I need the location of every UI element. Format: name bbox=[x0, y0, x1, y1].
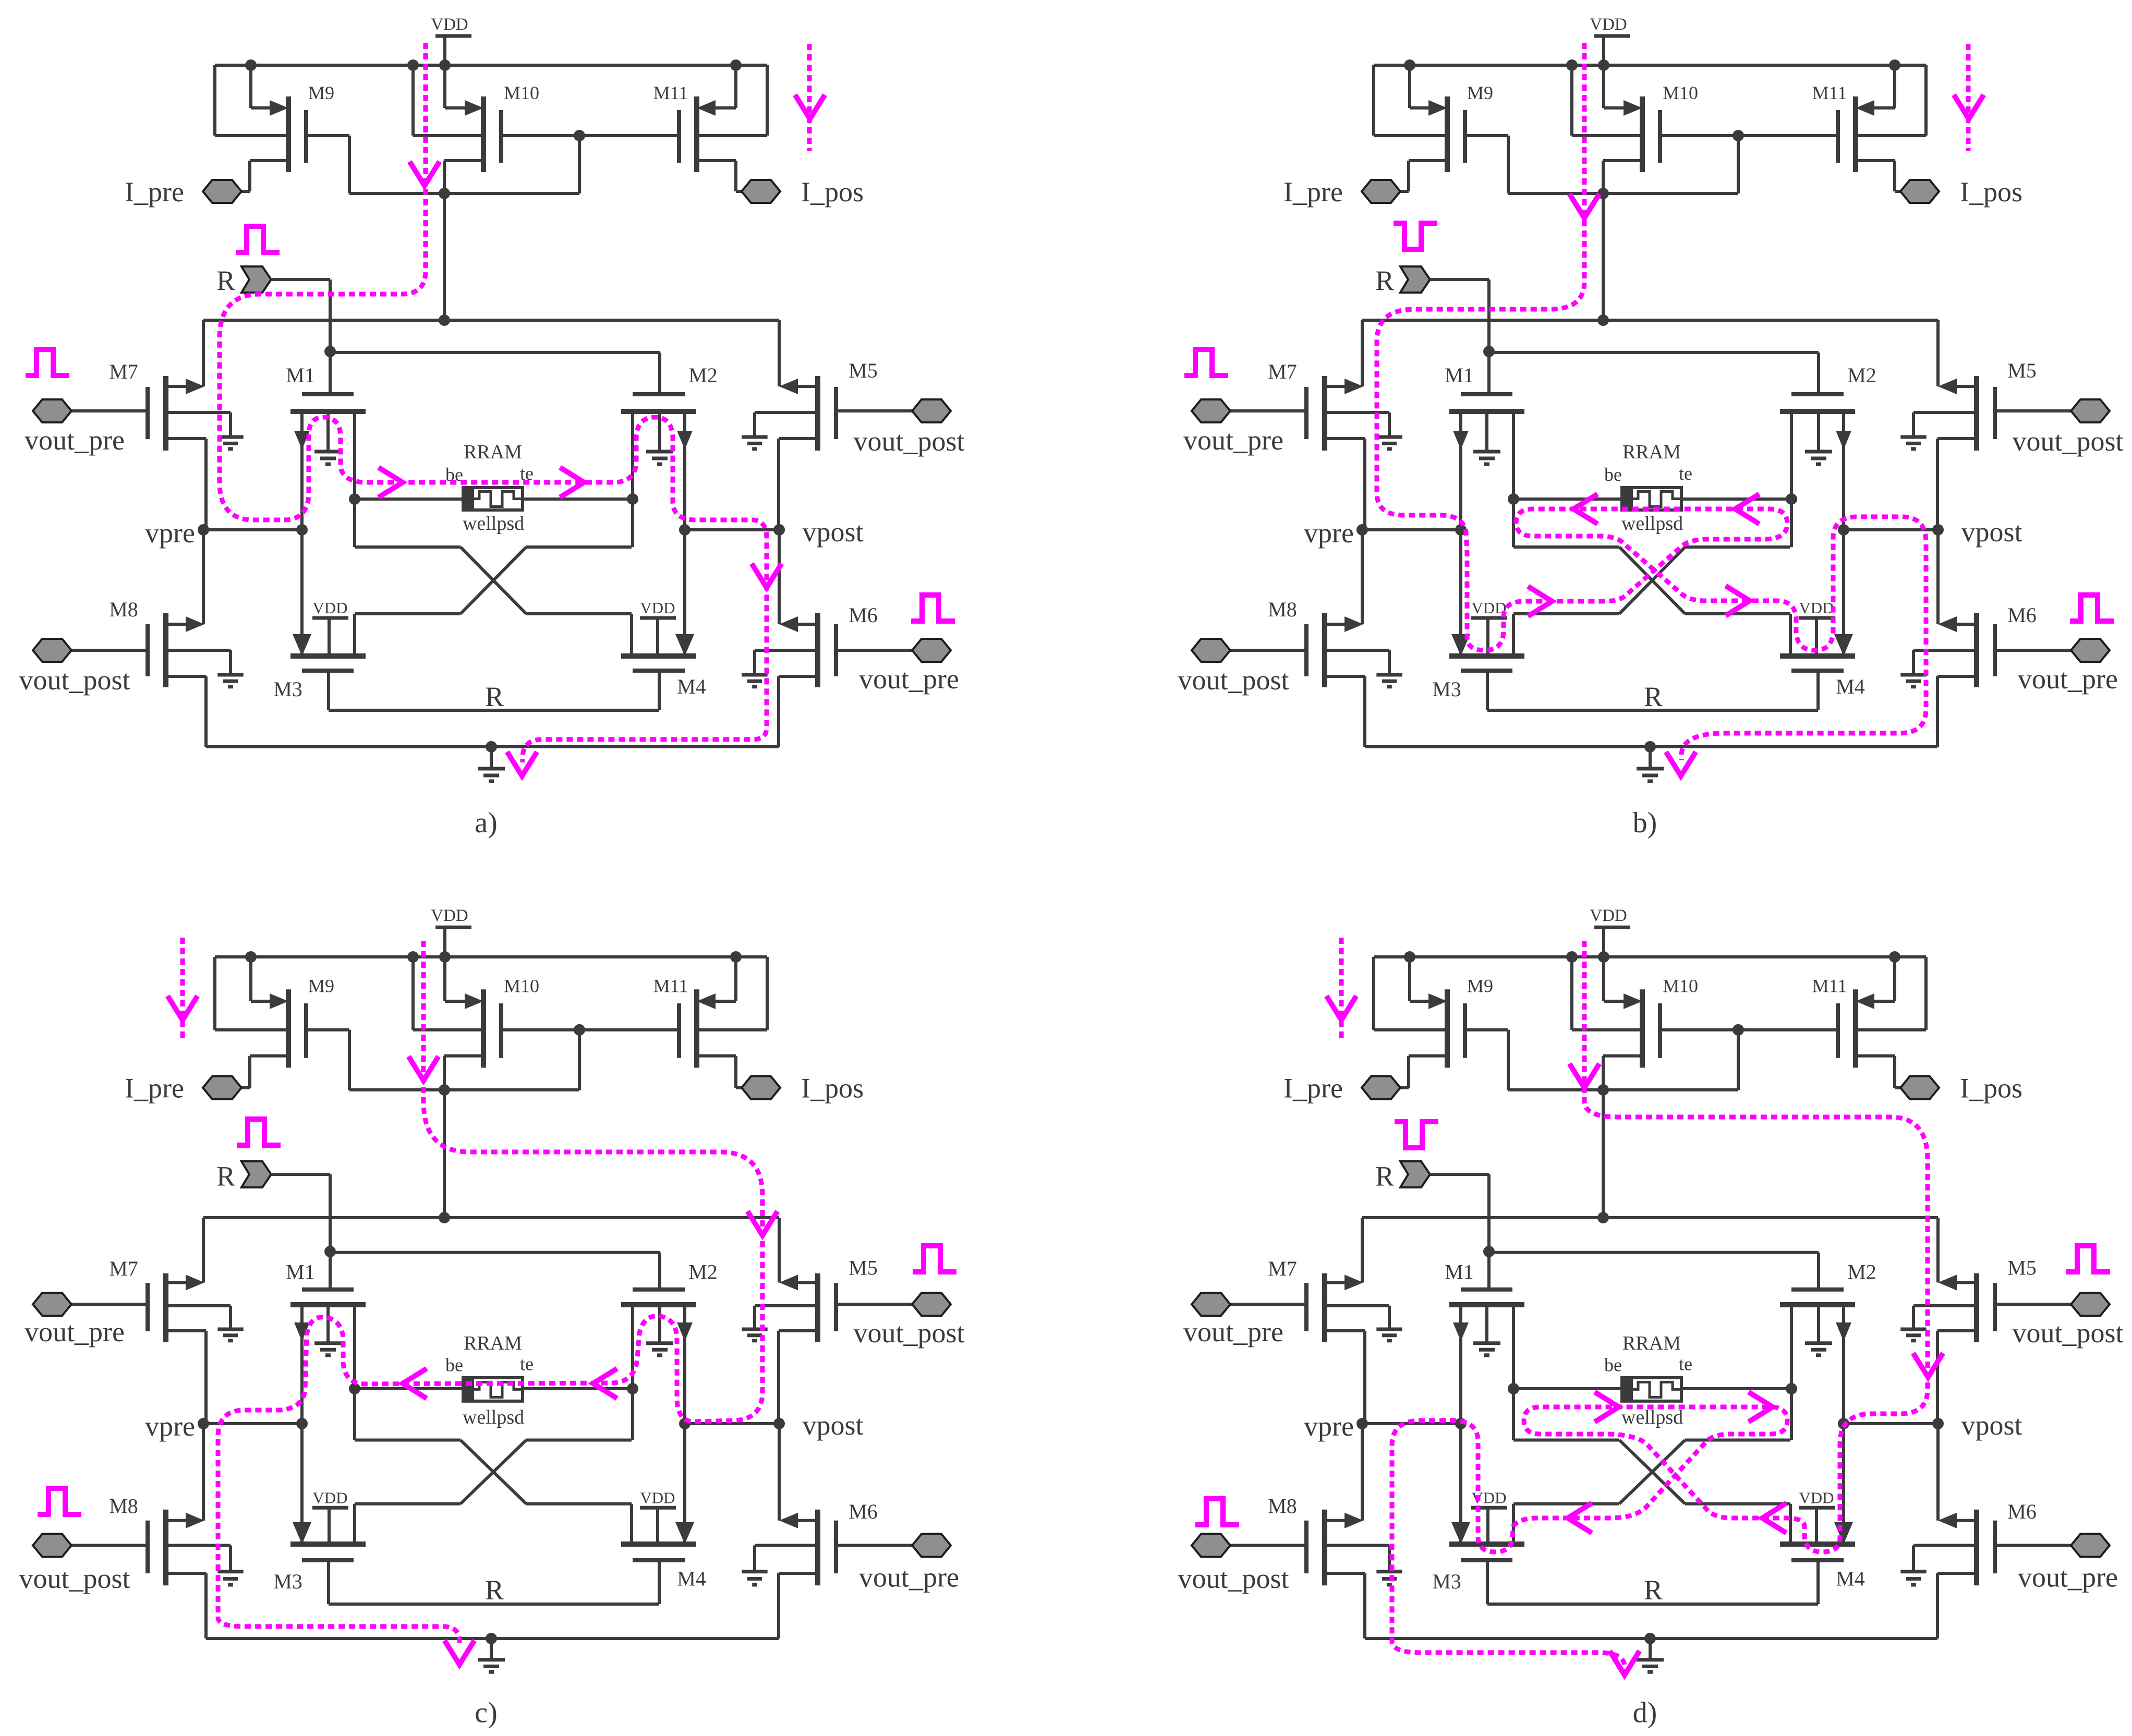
cross-coupling wires bbox=[1512, 1389, 1515, 1440]
svg-text:te: te bbox=[520, 1354, 534, 1375]
transistor M8 bbox=[146, 1521, 150, 1573]
cross-coupling wires bbox=[353, 1389, 356, 1440]
svg-text:M9: M9 bbox=[1467, 82, 1493, 103]
svg-text:vout_pre: vout_pre bbox=[2018, 663, 2118, 695]
transistor M2 bbox=[633, 1288, 685, 1292]
svg-text:M3: M3 bbox=[273, 677, 302, 701]
svg-text:R: R bbox=[216, 265, 235, 296]
current path (magenta) panel a bbox=[220, 43, 767, 762]
svg-text:vout_post: vout_post bbox=[2012, 1317, 2123, 1349]
svg-text:c): c) bbox=[475, 1696, 498, 1729]
svg-text:M2: M2 bbox=[688, 1260, 718, 1283]
transistor M7 bbox=[1304, 1283, 1309, 1331]
junction dots on VDD rail bbox=[245, 951, 257, 963]
svg-text:M5: M5 bbox=[849, 1256, 878, 1279]
pulse symbol at M5 bbox=[2066, 1246, 2110, 1272]
wire mirror output node bbox=[349, 1088, 579, 1091]
svg-text:M6: M6 bbox=[2007, 1500, 2037, 1523]
transistor M2 bbox=[1791, 392, 1844, 396]
svg-text:I_pre: I_pre bbox=[125, 1073, 184, 1104]
svg-text:M4: M4 bbox=[1836, 1567, 1865, 1591]
svg-text:M2: M2 bbox=[1847, 1260, 1876, 1283]
svg-text:M3: M3 bbox=[1432, 677, 1461, 701]
transistor M1 bbox=[302, 1288, 354, 1292]
pad vout_pre (M7 gate) bbox=[1192, 399, 1230, 422]
svg-text:M11: M11 bbox=[653, 975, 688, 996]
svg-text:M8: M8 bbox=[1268, 598, 1297, 621]
svg-text:M5: M5 bbox=[2007, 1256, 2037, 1279]
pulse symbol at M6 bbox=[2070, 595, 2114, 621]
svg-text:vpost: vpost bbox=[1961, 516, 2022, 548]
svg-text:VDD: VDD bbox=[640, 599, 675, 617]
ground at M5 bulk bbox=[742, 1328, 767, 1331]
svg-text:RRAM: RRAM bbox=[464, 441, 522, 463]
svg-text:I_pos: I_pos bbox=[1960, 1073, 2022, 1104]
svg-text:M2: M2 bbox=[688, 363, 718, 387]
node vpre bbox=[1362, 528, 1461, 531]
svg-text:R: R bbox=[1375, 265, 1394, 296]
wire gate net M10/M11 bbox=[1660, 1028, 1838, 1031]
node vpost bbox=[1844, 528, 1938, 531]
dashed current arrow I_pre side bbox=[1339, 938, 1344, 1040]
pad vout_pre (M6 gate) bbox=[912, 1534, 951, 1557]
pad vout_pre (M7 gate) bbox=[33, 1293, 71, 1316]
transistor M11 (PMOS, mirrored) bbox=[1853, 96, 1858, 172]
svg-text:vout_pre: vout_pre bbox=[1183, 424, 1283, 456]
svg-text:M11: M11 bbox=[653, 82, 688, 103]
ground at M2 bulk bbox=[1805, 1341, 1832, 1345]
transistor M8 bbox=[146, 624, 150, 676]
svg-text:R: R bbox=[216, 1160, 235, 1192]
wire ground rail bbox=[1365, 1637, 1937, 1640]
svg-text:R: R bbox=[1644, 681, 1663, 712]
svg-text:vout_pre: vout_pre bbox=[1183, 1316, 1283, 1347]
transistor M9 (PMOS, current mirror) bbox=[1445, 989, 1450, 1067]
junction dots on VDD rail bbox=[1404, 59, 1415, 71]
wire ground rail bbox=[206, 745, 779, 748]
ground at M7 bulk bbox=[217, 435, 243, 439]
svg-text:R: R bbox=[485, 1574, 504, 1606]
RRAM memristor device bbox=[1513, 1387, 1622, 1390]
ground at M8 bulk bbox=[217, 673, 243, 677]
pulse symbol at R (negative) bbox=[1395, 1122, 1438, 1148]
transistor M4 bbox=[621, 1541, 696, 1547]
svg-text:VDD: VDD bbox=[431, 906, 468, 925]
ground at M8 bulk bbox=[1376, 1570, 1402, 1573]
node vpost bbox=[685, 528, 779, 531]
svg-text:wellpsd: wellpsd bbox=[463, 513, 524, 535]
ground at M5 bulk bbox=[1900, 435, 1926, 439]
wire R gate bus M3-M4 bbox=[329, 1603, 659, 1606]
svg-text:M5: M5 bbox=[2007, 359, 2037, 382]
ground at M6 bulk bbox=[1900, 1570, 1926, 1573]
transistor M10 (PMOS, current mirror) bbox=[1640, 989, 1645, 1067]
svg-text:I_pos: I_pos bbox=[801, 1073, 864, 1104]
svg-text:vout_pre: vout_pre bbox=[859, 663, 959, 695]
ground at M2 bulk bbox=[646, 450, 673, 454]
wire upper horizontal rail bbox=[203, 1216, 779, 1219]
svg-text:I_pos: I_pos bbox=[1960, 176, 2022, 208]
wire VDD rail bbox=[1374, 64, 1926, 67]
pad R input bbox=[241, 266, 271, 293]
wire gate net M10/M11 bbox=[1660, 134, 1838, 137]
wire VDD rail bbox=[215, 955, 767, 958]
transistor M11 (PMOS, mirrored) bbox=[1853, 989, 1858, 1067]
cross-coupling wires bbox=[353, 499, 356, 547]
svg-text:R: R bbox=[1644, 1574, 1663, 1606]
transistor M5 bbox=[1993, 1283, 1997, 1331]
svg-text:vout_pre: vout_pre bbox=[25, 424, 125, 456]
svg-text:M1: M1 bbox=[286, 1260, 315, 1283]
svg-text:vout_post: vout_post bbox=[2012, 426, 2123, 457]
pulse symbol at M7 bbox=[1184, 349, 1228, 375]
svg-text:VDD: VDD bbox=[312, 1489, 347, 1507]
node R gate bus bbox=[1483, 1246, 1495, 1257]
svg-text:vout_post: vout_post bbox=[19, 664, 130, 696]
ground at M2 bulk bbox=[1805, 450, 1832, 454]
svg-text:vpre: vpre bbox=[1304, 1411, 1354, 1442]
pad R input bbox=[1400, 266, 1430, 293]
svg-text:M5: M5 bbox=[849, 359, 878, 382]
svg-text:M9: M9 bbox=[308, 82, 334, 103]
svg-text:wellpsd: wellpsd bbox=[1621, 1406, 1683, 1428]
svg-text:M1: M1 bbox=[1445, 363, 1474, 387]
transistor M4 bbox=[1780, 653, 1855, 659]
svg-text:M10: M10 bbox=[1663, 975, 1698, 996]
pad vout_pre (M6 gate) bbox=[2071, 639, 2110, 662]
node vpre bbox=[203, 1422, 302, 1425]
wire mirror output node bbox=[1508, 192, 1738, 195]
wire upper horizontal rail bbox=[1362, 1216, 1938, 1219]
svg-text:M7: M7 bbox=[109, 1257, 138, 1280]
transistor M6 bbox=[1993, 1521, 1997, 1573]
ground at M5 bulk bbox=[1900, 1328, 1926, 1331]
pad vout_pre (M7 gate) bbox=[1192, 1293, 1230, 1316]
pulse symbol at M5 bbox=[913, 1246, 956, 1272]
ground symbol main bbox=[1649, 1638, 1652, 1660]
pad vout_post (M8 gate) bbox=[1192, 1534, 1230, 1557]
pad vout_post (M8 gate) bbox=[33, 639, 71, 662]
node R gate bus bbox=[324, 1246, 336, 1257]
svg-text:te: te bbox=[1679, 463, 1692, 484]
node R gate bus bbox=[324, 346, 336, 357]
svg-text:VDD: VDD bbox=[312, 599, 347, 617]
pulse symbol at M8 bbox=[38, 1488, 81, 1514]
transistor M1 bbox=[1461, 392, 1512, 396]
pad I_pre bbox=[203, 1076, 241, 1099]
current path (magenta) panel b bbox=[1377, 43, 1926, 760]
transistor M3 bbox=[290, 1541, 366, 1547]
svg-text:vout_post: vout_post bbox=[1178, 1563, 1289, 1594]
transistor M8 bbox=[1304, 1521, 1309, 1573]
transistor M10 (PMOS, current mirror) bbox=[481, 96, 486, 172]
wire upper horizontal rail bbox=[1362, 319, 1938, 322]
svg-text:M10: M10 bbox=[1663, 82, 1698, 103]
pad I_pre bbox=[1362, 1076, 1400, 1099]
node vpost bbox=[685, 1422, 779, 1425]
svg-text:wellpsd: wellpsd bbox=[1621, 513, 1683, 535]
ground at M7 bulk bbox=[217, 1328, 243, 1331]
svg-text:RRAM: RRAM bbox=[464, 1332, 522, 1354]
svg-text:vout_post: vout_post bbox=[19, 1563, 130, 1594]
svg-text:M1: M1 bbox=[286, 363, 315, 387]
svg-text:VDD: VDD bbox=[1590, 906, 1627, 925]
transistor M9 (PMOS, current mirror) bbox=[1445, 96, 1450, 172]
ground symbol main bbox=[490, 747, 493, 769]
pad I_pre bbox=[1362, 180, 1400, 203]
pad vout_post (M5 gate) bbox=[2071, 1293, 2110, 1316]
svg-text:be: be bbox=[1604, 464, 1622, 485]
RRAM memristor device bbox=[355, 497, 463, 501]
wire ground rail bbox=[1365, 745, 1937, 748]
transistor M6 bbox=[834, 624, 838, 676]
RRAM memristor device bbox=[1513, 497, 1622, 501]
svg-text:VDD: VDD bbox=[431, 15, 468, 34]
svg-text:R: R bbox=[1375, 1160, 1394, 1192]
pad vout_pre (M6 gate) bbox=[2071, 1534, 2110, 1557]
ground at M1 bulk bbox=[314, 450, 342, 454]
RRAM memristor device bbox=[355, 1387, 463, 1390]
pulse symbol at R bbox=[237, 1119, 281, 1145]
ground at M1 bulk bbox=[1473, 1341, 1500, 1345]
pad I_pos bbox=[742, 180, 780, 203]
svg-text:a): a) bbox=[475, 807, 498, 839]
current path (magenta) panel c bbox=[218, 941, 762, 1646]
svg-text:I_pre: I_pre bbox=[125, 176, 184, 208]
pulse symbol at M7 bbox=[26, 349, 69, 375]
pad I_pos bbox=[742, 1076, 780, 1099]
pulse symbol at M8 bbox=[1195, 1499, 1239, 1525]
svg-text:M11: M11 bbox=[1812, 82, 1847, 103]
pad vout_post (M5 gate) bbox=[912, 399, 951, 422]
transistor M2 bbox=[1791, 1288, 1844, 1292]
svg-text:be: be bbox=[1604, 1355, 1622, 1376]
ground at M6 bulk bbox=[742, 1570, 767, 1573]
svg-text:M7: M7 bbox=[1268, 1257, 1297, 1280]
ground symbol main bbox=[1649, 747, 1652, 769]
pad vout_post (M5 gate) bbox=[2071, 399, 2110, 422]
svg-text:VDD: VDD bbox=[640, 1489, 675, 1507]
svg-text:VDD: VDD bbox=[1799, 1489, 1834, 1507]
transistor M5 bbox=[834, 1283, 838, 1331]
transistor M7 bbox=[146, 1283, 150, 1331]
transistor M5 bbox=[834, 387, 838, 439]
transistor M4 bbox=[621, 653, 696, 659]
wire gate net M10/M11 bbox=[501, 1028, 679, 1031]
svg-text:vout_pre: vout_pre bbox=[859, 1562, 959, 1593]
pad vout_post (M8 gate) bbox=[33, 1534, 71, 1557]
svg-text:M10: M10 bbox=[504, 975, 539, 996]
pad I_pos bbox=[1900, 1076, 1939, 1099]
pad R input bbox=[1400, 1161, 1430, 1187]
svg-text:M8: M8 bbox=[1268, 1495, 1297, 1518]
pad vout_post (M8 gate) bbox=[1192, 639, 1230, 662]
transistor M3 bbox=[290, 653, 366, 659]
pad R input bbox=[241, 1161, 271, 1187]
svg-text:vpre: vpre bbox=[1304, 517, 1354, 549]
transistor M6 bbox=[1993, 624, 1997, 676]
wire upper horizontal rail bbox=[203, 319, 779, 322]
svg-text:VDD: VDD bbox=[1799, 599, 1834, 617]
transistor M2 bbox=[633, 392, 685, 396]
ground symbol main bbox=[490, 1638, 493, 1660]
transistor M3 bbox=[1449, 653, 1524, 659]
svg-text:te: te bbox=[1679, 1354, 1692, 1375]
svg-text:M11: M11 bbox=[1812, 975, 1847, 996]
svg-text:vout_post: vout_post bbox=[1178, 664, 1289, 696]
svg-text:M9: M9 bbox=[1467, 975, 1493, 996]
pulse symbol at R bbox=[236, 226, 280, 252]
transistor M5 bbox=[1993, 387, 1997, 439]
svg-text:M7: M7 bbox=[109, 360, 138, 383]
pad vout_post (M5 gate) bbox=[912, 1293, 951, 1316]
ground at M1 bulk bbox=[314, 1341, 342, 1345]
pad I_pre bbox=[203, 180, 241, 203]
pulse symbol at M6 bbox=[911, 595, 955, 621]
ground at M6 bulk bbox=[742, 673, 767, 677]
wire VDD rail bbox=[215, 64, 767, 67]
wire ground rail bbox=[206, 1637, 779, 1640]
ground at M7 bulk bbox=[1376, 1328, 1402, 1331]
svg-text:wellpsd: wellpsd bbox=[463, 1406, 524, 1428]
svg-text:vout_pre: vout_pre bbox=[25, 1316, 125, 1347]
transistor M7 bbox=[1304, 387, 1309, 439]
svg-text:M3: M3 bbox=[273, 1570, 302, 1593]
junction dots on VDD rail bbox=[245, 59, 257, 71]
svg-text:vpre: vpre bbox=[145, 517, 195, 549]
transistor M9 (PMOS, current mirror) bbox=[286, 989, 291, 1067]
transistor M3 bbox=[1449, 1541, 1524, 1547]
ground at M8 bulk bbox=[1376, 673, 1402, 677]
svg-text:be: be bbox=[445, 1355, 463, 1376]
svg-text:vout_pre: vout_pre bbox=[2018, 1562, 2118, 1593]
transistor M11 (PMOS, mirrored) bbox=[694, 989, 699, 1067]
svg-text:RRAM: RRAM bbox=[1622, 1332, 1681, 1354]
node vpre bbox=[1362, 1422, 1461, 1425]
svg-text:b): b) bbox=[1633, 807, 1657, 839]
svg-text:M4: M4 bbox=[1836, 675, 1865, 698]
pulse symbol at R (negative) bbox=[1394, 223, 1437, 249]
wire gate net M10/M11 bbox=[501, 134, 679, 137]
svg-text:vpost: vpost bbox=[802, 516, 863, 548]
node R gate bus bbox=[1483, 346, 1495, 357]
transistor M9 (PMOS, current mirror) bbox=[286, 96, 291, 172]
pad I_pos bbox=[1900, 180, 1939, 203]
ground at M7 bulk bbox=[1376, 435, 1402, 439]
wire mirror output node bbox=[1508, 1088, 1738, 1091]
ground at M5 bulk bbox=[742, 435, 767, 439]
svg-text:M4: M4 bbox=[677, 1567, 706, 1591]
svg-text:M4: M4 bbox=[677, 675, 706, 698]
dashed current arrow I_pre side bbox=[180, 938, 185, 1040]
ground at M8 bulk bbox=[217, 1570, 243, 1573]
ground at M6 bulk bbox=[1900, 673, 1926, 677]
transistor M11 (PMOS, mirrored) bbox=[694, 96, 699, 172]
svg-text:I_pre: I_pre bbox=[1283, 176, 1343, 208]
svg-text:M7: M7 bbox=[1268, 360, 1297, 383]
wire R gate bus M3-M4 bbox=[1487, 709, 1818, 712]
transistor M1 bbox=[1461, 1288, 1512, 1292]
svg-text:I_pos: I_pos bbox=[801, 176, 864, 208]
transistor M4 bbox=[1780, 1541, 1855, 1547]
svg-text:M9: M9 bbox=[308, 975, 334, 996]
svg-text:M6: M6 bbox=[2007, 603, 2037, 627]
transistor M8 bbox=[1304, 624, 1309, 676]
pad vout_pre (M7 gate) bbox=[33, 399, 71, 422]
transistor M1 bbox=[302, 392, 354, 396]
svg-text:M1: M1 bbox=[1445, 1260, 1474, 1283]
svg-text:M3: M3 bbox=[1432, 1570, 1461, 1593]
svg-text:M6: M6 bbox=[849, 1500, 878, 1523]
pad vout_pre (M6 gate) bbox=[912, 639, 951, 662]
transistor M7 bbox=[146, 387, 150, 439]
svg-text:vout_post: vout_post bbox=[853, 426, 964, 457]
svg-text:vpost: vpost bbox=[802, 1410, 863, 1441]
wire R gate bus M3-M4 bbox=[329, 709, 659, 712]
junction dots on VDD rail bbox=[1404, 951, 1415, 963]
node vpost bbox=[1844, 1422, 1938, 1425]
transistor M6 bbox=[834, 1521, 838, 1573]
node vpre bbox=[203, 528, 302, 531]
ground at M1 bulk bbox=[1473, 450, 1500, 454]
svg-text:I_pre: I_pre bbox=[1283, 1073, 1343, 1104]
current path (magenta) panel d bbox=[1392, 941, 1928, 1671]
cross-coupling wires bbox=[1512, 499, 1515, 547]
wire mirror output node bbox=[349, 192, 579, 195]
transistor M10 (PMOS, current mirror) bbox=[481, 989, 486, 1067]
svg-text:vpre: vpre bbox=[145, 1411, 195, 1442]
svg-text:d): d) bbox=[1633, 1696, 1657, 1729]
ground at M2 bulk bbox=[646, 1341, 673, 1345]
svg-text:M8: M8 bbox=[109, 598, 138, 621]
svg-text:M2: M2 bbox=[1847, 363, 1876, 387]
svg-text:R: R bbox=[485, 681, 504, 712]
svg-text:vout_post: vout_post bbox=[853, 1317, 964, 1349]
transistor M10 (PMOS, current mirror) bbox=[1640, 96, 1645, 172]
dashed current arrow I_pos side bbox=[807, 44, 812, 151]
svg-text:vpost: vpost bbox=[1961, 1410, 2022, 1441]
svg-text:M10: M10 bbox=[504, 82, 539, 103]
svg-text:M6: M6 bbox=[849, 603, 878, 627]
wire VDD rail bbox=[1374, 955, 1926, 958]
svg-text:VDD: VDD bbox=[1471, 599, 1506, 617]
svg-text:VDD: VDD bbox=[1590, 15, 1627, 34]
wire R gate bus M3-M4 bbox=[1487, 1603, 1818, 1606]
svg-text:RRAM: RRAM bbox=[1622, 441, 1681, 463]
dashed current arrow I_pos side bbox=[1966, 44, 1971, 151]
svg-text:M8: M8 bbox=[109, 1495, 138, 1518]
